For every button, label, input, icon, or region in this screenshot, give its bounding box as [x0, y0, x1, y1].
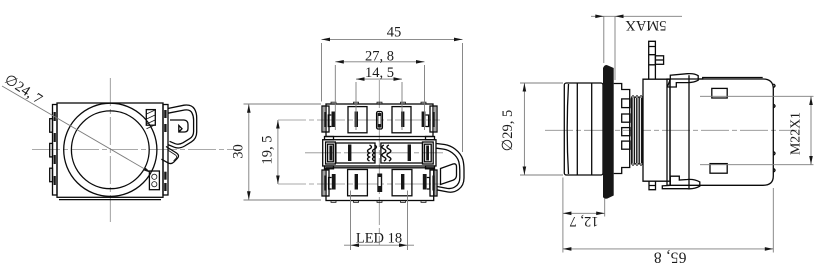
svg-text:5MAX: 5MAX	[625, 17, 667, 33]
row gap connectors top	[325, 137, 334, 140]
hatched window top-right	[146, 110, 155, 126]
cap dome curve	[567, 84, 568, 174]
collar teeth	[622, 99, 630, 108]
row1 left end cap	[322, 106, 329, 132]
row2 outer body	[323, 140, 436, 166]
row2 left spring contact	[368, 145, 372, 161]
mounting clip (rear view) inner loop	[437, 148, 460, 188]
mounting clip (front view) outer loop	[168, 105, 197, 148]
block top small rect	[712, 88, 727, 98]
row1 centerline	[278, 119, 440, 121]
mounting clip inner hook	[170, 120, 188, 132]
bezel flange (black)	[603, 65, 614, 199]
row1 right inner rect	[392, 107, 411, 133]
row3 right terminal slot	[423, 174, 427, 190]
contact block body	[667, 79, 773, 185]
left flange tick marks	[54, 112, 56, 121]
dim LED18 line	[344, 244, 414, 246]
row3 right end cap	[430, 170, 437, 196]
dim dia29.5 extensions	[520, 83, 563, 175]
svg-text:∅29, 5: ∅29, 5	[500, 110, 516, 152]
dim 27.8 line	[335, 61, 424, 63]
dim LED18 extensions	[351, 191, 408, 251]
row2 right spring contact	[387, 145, 391, 161]
row1 left inner rect	[348, 107, 367, 133]
dim 12.7 extensions	[563, 178, 605, 253]
svg-text:14, 5: 14, 5	[365, 65, 394, 81]
row3 centerline	[278, 183, 440, 185]
adapter bottom tab	[649, 181, 656, 190]
dim dia29.5 line	[523, 83, 525, 175]
row2 right cap double	[423, 142, 434, 164]
row1 right end cap	[430, 106, 437, 132]
mounting clip (rear view) outer loop	[437, 144, 465, 193]
thread jagged edges	[631, 96, 643, 166]
dia24.7 leader line	[2, 86, 152, 173]
rear view vertical centerline	[378, 80, 380, 245]
dim 30 line	[248, 104, 250, 200]
clip inner tab	[441, 164, 457, 185]
LED window bottom-right	[149, 171, 159, 190]
dim M22X1 line	[810, 97, 812, 165]
side view horizontal centerline	[545, 129, 797, 131]
button inner circle	[71, 111, 149, 189]
svg-text:27, 8: 27, 8	[365, 48, 394, 64]
block right edge nubs	[773, 84, 775, 172]
row3 left terminal slot	[332, 174, 336, 190]
row2 centerline	[305, 152, 443, 154]
row3 bottom edge notches	[331, 201, 426, 203]
row3 outer body	[326, 168, 434, 201]
mounting clip (front view) inner loop	[168, 110, 194, 144]
bezel outer ring	[64, 103, 157, 196]
dim 5MAX extensions	[604, 16, 615, 80]
dim 12.7 line	[563, 212, 605, 214]
right flange tick marks	[164, 110, 166, 118]
dim 27.8 extensions	[335, 65, 424, 130]
svg-text:12, 7: 12, 7	[570, 213, 599, 229]
svg-text:45: 45	[387, 25, 402, 41]
row gap connectors bottom	[325, 166, 334, 169]
dim 5MAX line	[591, 15, 682, 17]
dim 30 extensions	[244, 104, 322, 200]
dim 65.8 extension right	[772, 188, 774, 253]
block bottom-left latch lever	[662, 176, 700, 189]
right flange bar	[163, 105, 168, 196]
adapter top tall tab	[649, 41, 656, 79]
row1 outer body	[326, 104, 433, 137]
row1 left terminal slot	[332, 112, 336, 128]
svg-text:19, 5: 19, 5	[260, 136, 276, 165]
cap inner lines	[577, 83, 591, 175]
block front face lines	[670, 75, 689, 189]
dim 14.5 extensions	[356, 82, 402, 130]
svg-text:LED 18: LED 18	[356, 231, 402, 247]
front view vertical centerline	[109, 78, 111, 222]
row1 top edge notches	[331, 102, 426, 104]
row3 left inner rect	[348, 170, 368, 196]
button cap	[564, 83, 603, 175]
row1 center slot	[377, 112, 383, 130]
clip lower tongue	[161, 147, 178, 164]
row3 right inner rect	[392, 170, 412, 196]
row2 left half	[336, 143, 375, 163]
dim 45 extensions	[322, 43, 463, 152]
dim 65.8 line	[563, 248, 773, 250]
block top step	[698, 78, 763, 80]
dim M22X1 extensions	[700, 96, 814, 164]
block bottom small rect	[710, 164, 727, 174]
adapter plate	[643, 79, 670, 181]
dim 19.5 line	[277, 120, 279, 184]
row2 right half	[381, 143, 423, 163]
left flange bar	[53, 105, 58, 196]
front view horizontal centerline	[32, 149, 236, 151]
dim 14.5 line	[356, 78, 402, 80]
svg-text:30: 30	[231, 144, 247, 159]
svg-text:65, 8: 65, 8	[654, 249, 687, 266]
row1 right terminal slot	[422, 112, 426, 128]
dim 45 line	[322, 38, 463, 40]
front view body square	[57, 103, 163, 197]
front view body bottom double line	[59, 199, 161, 201]
thread section	[631, 98, 643, 164]
row3 center slot	[377, 174, 382, 193]
svg-text:M22X1: M22X1	[788, 112, 803, 155]
row3 left end cap	[322, 170, 329, 196]
row2 left cap double	[326, 142, 336, 164]
arrowheads	[322, 38, 331, 42]
block top-left latch lever	[667, 74, 698, 87]
adapter tab side nub	[655, 56, 663, 65]
left flange tabs	[50, 119, 53, 133]
collar behind panel	[614, 84, 630, 174]
